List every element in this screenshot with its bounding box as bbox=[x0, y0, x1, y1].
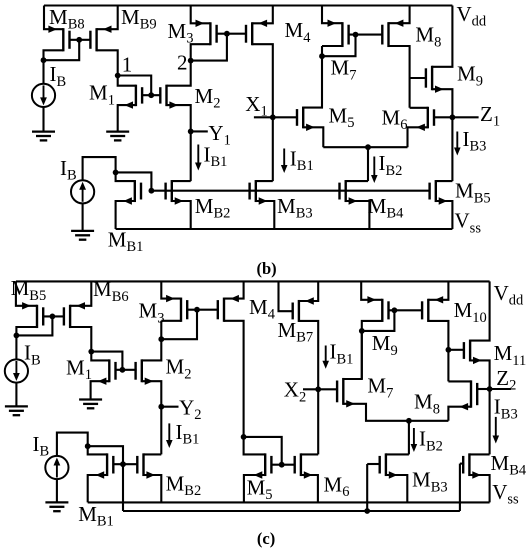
svg-text:1: 1 bbox=[122, 53, 133, 77]
svg-text:(c): (c) bbox=[257, 529, 275, 548]
svg-text:(b): (b) bbox=[257, 259, 277, 278]
svg-text:2: 2 bbox=[177, 51, 188, 75]
